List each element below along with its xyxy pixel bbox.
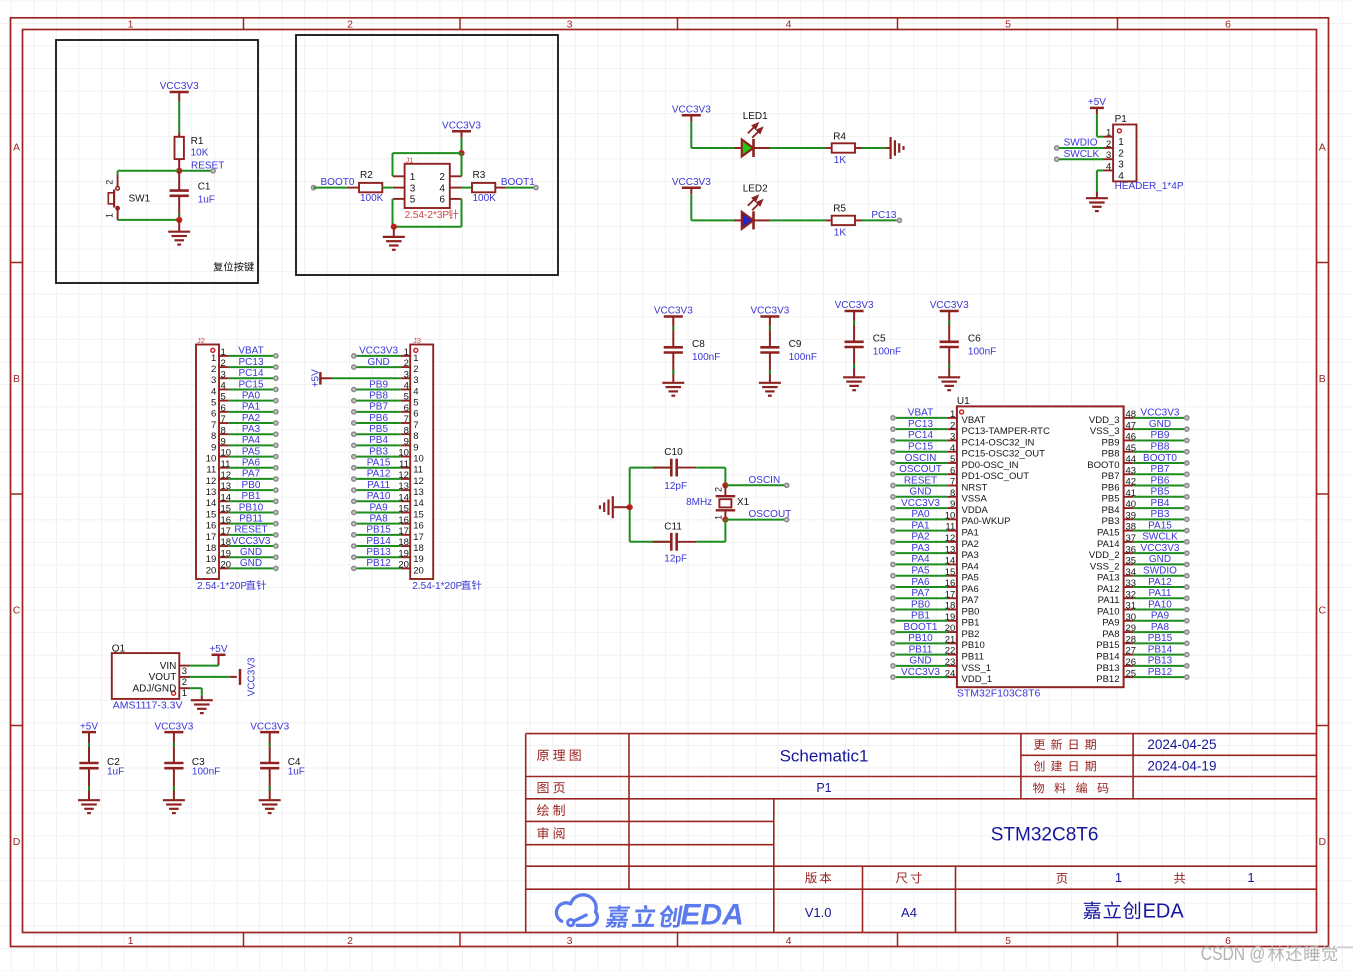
wire VCC3V3 to R1	[178, 99, 180, 102]
wire C6 to ground	[948, 347, 950, 377]
J3 pin 9 (PB4)	[401, 444, 411, 446]
svg-text:3: 3	[404, 369, 409, 380]
LED LED2	[735, 219, 743, 221]
svg-text:VCC3V3: VCC3V3	[901, 667, 940, 678]
svg-text:PB8: PB8	[1151, 442, 1170, 453]
svg-text:1: 1	[1118, 137, 1124, 148]
svg-text:VDD_1: VDD_1	[962, 674, 993, 685]
svg-text:VDD_2: VDD_2	[1089, 550, 1120, 561]
svg-text:5: 5	[221, 392, 226, 403]
svg-text:PC15-OSC32_OUT: PC15-OSC32_OUT	[962, 449, 1046, 460]
wire VCC3V3 to LED2	[690, 194, 692, 220]
U1 pin 2 (PC13-TAMPER-RTC)	[947, 428, 957, 430]
svg-text:STM32C8T6: STM32C8T6	[991, 825, 1099, 846]
svg-text:A: A	[1319, 142, 1326, 154]
svg-text:PA8: PA8	[1102, 629, 1119, 640]
svg-text:LED2: LED2	[743, 183, 768, 194]
svg-text:5: 5	[1005, 935, 1011, 947]
svg-text:VCC3V3: VCC3V3	[672, 177, 711, 188]
wire BOOT0 to R2	[314, 187, 348, 189]
svg-text:PC15: PC15	[238, 379, 263, 390]
wire C2 to ground	[88, 768, 90, 800]
svg-text:PA4: PA4	[911, 554, 930, 565]
U1 pin 18 (PB0)	[947, 609, 957, 611]
pushbutton SW1	[117, 175, 119, 186]
svg-text:D: D	[1319, 836, 1327, 848]
svg-text:1uF: 1uF	[107, 767, 124, 778]
svg-text:2: 2	[439, 172, 445, 183]
U1 pin 4 (PC15-OSC32_OUT)	[947, 451, 957, 453]
svg-text:PA1: PA1	[911, 520, 930, 531]
svg-text:11: 11	[206, 465, 216, 476]
svg-text:PB10: PB10	[239, 502, 264, 513]
svg-text:PB8: PB8	[369, 390, 388, 401]
wire LED2 to R5	[770, 219, 827, 221]
svg-text:PB0: PB0	[962, 606, 980, 617]
capacitor C6	[940, 340, 959, 343]
svg-text:4: 4	[439, 183, 445, 194]
frame row ticks	[11, 262, 23, 264]
svg-text:PB10: PB10	[962, 640, 985, 651]
svg-text:CSDN @: CSDN @	[1201, 943, 1266, 965]
power flag VCC3V3 (Q1, rotated)	[239, 669, 242, 685]
svg-text:PB4: PB4	[369, 435, 388, 446]
capacitor C1	[178, 171, 180, 191]
U1 pin 25 (PB12)	[1124, 676, 1134, 678]
svg-text:2.54-1*20P: 2.54-1*20P	[412, 581, 462, 592]
title field 尺寸	[896, 872, 922, 884]
svg-text:VCC3V3: VCC3V3	[750, 306, 789, 317]
ground (reset block)	[178, 220, 180, 232]
U1 pin 31 (PA10)	[1124, 609, 1134, 611]
svg-text:VCC3V3: VCC3V3	[1141, 408, 1180, 419]
svg-text:PA2: PA2	[242, 413, 261, 424]
wire +5V to P1 pin1	[1096, 114, 1098, 136]
svg-text:D: D	[13, 836, 21, 848]
svg-text:VCC3V3: VCC3V3	[246, 657, 257, 696]
svg-text:2: 2	[182, 677, 187, 688]
power flag +5V (J3 pin3, rotated)	[319, 372, 322, 385]
wire R3 to BOOT1	[505, 187, 534, 189]
wire VCC3V3 to C5	[853, 317, 855, 342]
J2 pin 3 (PC14)	[219, 377, 229, 379]
svg-text:100K: 100K	[360, 193, 384, 204]
net port SWDIO	[1055, 146, 1059, 150]
svg-text:3: 3	[1118, 160, 1124, 171]
svg-text:P1: P1	[816, 781, 831, 795]
svg-text:PA1: PA1	[242, 402, 261, 413]
resistor R3	[461, 187, 472, 189]
net port SWCLK	[1055, 157, 1059, 161]
crystal X1 8MHz	[724, 485, 726, 496]
svg-text:VCC3V3: VCC3V3	[672, 104, 711, 115]
svg-text:PB13: PB13	[1148, 656, 1173, 667]
J2 pin 20 (GND)	[219, 567, 229, 569]
svg-text:PB3: PB3	[369, 446, 388, 457]
power flag VCC3V3 (C3)	[164, 731, 183, 734]
svg-text:PA5: PA5	[911, 566, 930, 577]
U1 pin 28 (PB15)	[1124, 642, 1134, 644]
U1 pin 23 (VSS_1)	[947, 665, 957, 667]
svg-text:2024-04-19: 2024-04-19	[1147, 759, 1216, 774]
wire VCC3V3 to C3	[173, 738, 175, 763]
svg-text:PA11: PA11	[367, 480, 390, 491]
svg-text:100nF: 100nF	[789, 352, 817, 363]
U1 pin 12 (PA2)	[947, 541, 957, 543]
U1 pin 34 (PA13)	[1124, 575, 1134, 577]
wire VCC3V3 to C4	[269, 738, 271, 763]
svg-text:6: 6	[950, 465, 955, 476]
svg-text:VOUT: VOUT	[149, 672, 177, 683]
svg-text:6: 6	[211, 409, 216, 420]
svg-text:PB2: PB2	[962, 629, 980, 640]
node junction R1/C1/SW1	[176, 168, 182, 174]
svg-text:1uF: 1uF	[288, 767, 305, 778]
wire C9 to ground	[769, 353, 771, 383]
svg-text:8: 8	[950, 488, 955, 499]
net port OSCIN	[785, 483, 789, 487]
svg-text:3: 3	[413, 375, 418, 386]
svg-text:PB5: PB5	[369, 424, 388, 435]
svg-text:PB15: PB15	[1148, 633, 1173, 644]
svg-text:4: 4	[211, 386, 216, 397]
U1 pin 21 (PB10)	[947, 642, 957, 644]
block label 复位按键	[213, 262, 253, 272]
power flag VCC3V3 (LED1)	[682, 114, 701, 117]
svg-text:4: 4	[950, 443, 955, 454]
svg-text:PA3: PA3	[911, 543, 930, 554]
svg-text:PB12: PB12	[366, 558, 391, 569]
svg-text:2: 2	[950, 420, 955, 431]
svg-text:9: 9	[221, 436, 226, 447]
U1 pin 37 (PA14)	[1124, 541, 1134, 543]
U1 pin 47 (VSS_3)	[1124, 428, 1134, 430]
svg-text:BOOT0: BOOT0	[1087, 460, 1119, 471]
svg-text:VSS_2: VSS_2	[1090, 561, 1120, 572]
svg-text:PB4: PB4	[1151, 498, 1170, 509]
svg-text:19: 19	[206, 554, 217, 565]
svg-text:PB12: PB12	[1096, 674, 1119, 685]
power flag +5V (Q1)	[212, 654, 226, 657]
svg-text:PB9: PB9	[1102, 437, 1120, 448]
J3 pin 17 (PB15)	[401, 534, 411, 536]
svg-text:PB8: PB8	[1102, 449, 1120, 460]
svg-text:5: 5	[950, 454, 955, 465]
wire right loop down	[724, 520, 726, 542]
svg-text:PB3: PB3	[1151, 509, 1170, 520]
svg-text:R5: R5	[833, 204, 846, 215]
ground (C3)	[163, 799, 185, 801]
title field 原理图	[537, 750, 581, 761]
svg-text:PA5: PA5	[242, 446, 261, 457]
capacitor C2	[79, 762, 98, 765]
svg-text:7: 7	[413, 420, 418, 431]
wire VCC3V3 to LED1	[690, 122, 692, 148]
wire VCC3V3 to C8	[672, 323, 674, 348]
svg-text:+5V: +5V	[311, 369, 322, 387]
U1 pin 26 (PB13)	[1124, 665, 1134, 667]
svg-text:7: 7	[404, 414, 409, 425]
power flag VCC3V3 (C4)	[260, 731, 279, 734]
svg-text:LED1: LED1	[743, 111, 768, 122]
svg-text:PB7: PB7	[1151, 464, 1170, 475]
U1 pin 35 (VSS_2)	[1124, 563, 1134, 565]
power flag +5V (P1)	[1090, 107, 1104, 110]
svg-text:+5V: +5V	[1088, 97, 1106, 108]
svg-text:17: 17	[413, 532, 424, 543]
svg-text:J2: J2	[197, 336, 205, 345]
svg-text:STM32F103C8T6: STM32F103C8T6	[957, 687, 1041, 699]
U1 pin 1 (VBAT)	[947, 417, 957, 419]
svg-text:+5V: +5V	[80, 721, 98, 732]
svg-text:Schematic1: Schematic1	[780, 746, 869, 765]
J3 pin 4 (PB9)	[401, 388, 411, 390]
U1 pin 39 (PB3)	[1124, 518, 1134, 520]
svg-text:8: 8	[221, 425, 226, 436]
ground (C2)	[78, 799, 100, 801]
svg-text:1: 1	[404, 347, 409, 358]
svg-text:PA15: PA15	[1148, 520, 1172, 531]
svg-text:VCC3V3: VCC3V3	[154, 721, 193, 732]
power flag VCC3V3 (LED2)	[682, 186, 701, 189]
J2 pin 9 (PA4)	[219, 444, 229, 446]
U1 pin 3 (PC14-OSC32_IN)	[947, 439, 957, 441]
svg-text:VBAT: VBAT	[962, 415, 986, 426]
svg-text:PB6: PB6	[369, 413, 388, 424]
power flag VCC3V3 (C9)	[760, 315, 779, 318]
svg-text:VSS_1: VSS_1	[962, 663, 992, 674]
U1 pin 15 (PA5)	[947, 575, 957, 577]
svg-text:PA0-WKUP: PA0-WKUP	[962, 516, 1011, 527]
svg-text:5: 5	[413, 398, 418, 409]
J3 pin 1 (VCC3V3)	[401, 355, 411, 357]
svg-text:C5: C5	[873, 333, 886, 344]
svg-text:VCC3V3: VCC3V3	[835, 300, 874, 311]
J2 pin 15 (PB10)	[219, 511, 229, 513]
svg-text:PA0: PA0	[911, 509, 930, 520]
svg-text:C1: C1	[198, 181, 211, 192]
svg-text:3: 3	[221, 369, 226, 380]
svg-text:PB12: PB12	[1148, 667, 1173, 678]
svg-text:1: 1	[128, 18, 134, 30]
svg-text:VCC3V3: VCC3V3	[232, 536, 271, 547]
svg-text:A: A	[13, 142, 20, 154]
svg-text:OSCOUT: OSCOUT	[899, 464, 942, 475]
resistor R2	[348, 187, 360, 189]
svg-text:VCC3V3: VCC3V3	[160, 81, 199, 92]
svg-text:R3: R3	[473, 170, 486, 181]
svg-text:PB7: PB7	[369, 402, 388, 413]
resistor R4	[826, 147, 832, 149]
svg-text:12: 12	[413, 476, 424, 487]
svg-text:PA7: PA7	[242, 469, 261, 480]
wire +5V to C2	[88, 738, 90, 763]
svg-text:PD1-OSC_OUT: PD1-OSC_OUT	[962, 471, 1030, 482]
resistor R5	[826, 219, 832, 221]
title field 图页	[538, 782, 565, 793]
svg-text:12pF: 12pF	[664, 554, 687, 565]
title field 更新日期	[1034, 739, 1096, 750]
svg-text:PA3: PA3	[962, 550, 979, 561]
svg-text:PA15: PA15	[367, 458, 391, 469]
svg-text:EDA: EDA	[681, 898, 744, 931]
svg-text:4: 4	[413, 386, 418, 397]
svg-text:14: 14	[206, 498, 217, 509]
block frame: reset button	[56, 40, 258, 283]
wire SWCLK to P1 pin3	[1057, 158, 1104, 160]
svg-text:3: 3	[567, 935, 573, 947]
J3 pin 8 (PB5)	[401, 433, 411, 435]
svg-text:7: 7	[221, 414, 226, 425]
U1 pin 10 (PA0-WKUP)	[947, 518, 957, 520]
node junction OSCIN	[722, 482, 728, 488]
svg-text:2: 2	[413, 364, 418, 375]
wire C4 to ground	[269, 768, 271, 800]
svg-text:1: 1	[413, 353, 418, 364]
U1 pin 19 (PB1)	[947, 620, 957, 622]
svg-text:PB13: PB13	[366, 547, 391, 558]
svg-text:RESET: RESET	[234, 525, 267, 536]
svg-text:GND: GND	[240, 547, 262, 558]
ground (C6)	[938, 376, 960, 378]
svg-text:SWDIO: SWDIO	[1143, 566, 1177, 577]
ground (C4)	[259, 799, 281, 801]
U1 pin 5 (PD0-OSC_IN)	[947, 462, 957, 464]
svg-text:OSCIN: OSCIN	[905, 453, 937, 464]
svg-text:PA12: PA12	[1097, 584, 1120, 595]
svg-text:17: 17	[206, 532, 217, 543]
svg-text:2.54-1*20P: 2.54-1*20P	[197, 581, 247, 592]
svg-text:PA6: PA6	[242, 458, 261, 469]
svg-text:2: 2	[347, 18, 353, 30]
svg-text:RESET: RESET	[904, 475, 937, 486]
svg-text:10: 10	[206, 453, 217, 464]
J3 pin 16 (PA8)	[401, 523, 411, 525]
svg-text:PB5: PB5	[1102, 494, 1120, 505]
logo JLCEDA cloud icon	[556, 895, 597, 926]
svg-text:18: 18	[206, 543, 217, 554]
svg-text:3: 3	[211, 375, 216, 386]
J3 pin 7 (PB6)	[401, 422, 411, 424]
capacitor C5	[845, 340, 864, 343]
capacitor C8	[664, 346, 683, 349]
J2 pin 18 (VCC3V3)	[219, 545, 229, 547]
wire OSCIN port	[725, 484, 784, 486]
capacitor C11	[630, 541, 672, 543]
ground (P1)	[1096, 192, 1098, 198]
svg-text:1: 1	[128, 935, 134, 947]
svg-text:8: 8	[404, 425, 409, 436]
net port BOOT0	[311, 186, 315, 190]
svg-text:14: 14	[413, 498, 424, 509]
svg-text:VSSA: VSSA	[962, 494, 988, 505]
title field 页	[1056, 873, 1067, 884]
svg-text:VCC3V3: VCC3V3	[930, 300, 969, 311]
wire SWDIO to P1 pin2	[1057, 147, 1104, 149]
power flag VCC3V3 (C8)	[664, 315, 683, 318]
ground (Q1)	[201, 696, 203, 700]
title field 共	[1174, 872, 1185, 883]
J3 pin 19 (PB13)	[401, 556, 411, 558]
svg-text:PC14: PC14	[908, 430, 933, 441]
svg-text:3: 3	[1106, 150, 1111, 161]
svg-text:12: 12	[206, 476, 217, 487]
svg-text:20: 20	[413, 565, 424, 576]
svg-text:PB14: PB14	[1096, 652, 1119, 663]
svg-text:4: 4	[786, 935, 792, 947]
svg-text:6: 6	[413, 409, 418, 420]
svg-text:PC13: PC13	[908, 419, 933, 430]
svg-text:PA12: PA12	[367, 469, 391, 480]
svg-text:19: 19	[413, 554, 424, 565]
J2 pin 11 (PA6)	[219, 467, 229, 469]
svg-text:PB15: PB15	[1096, 640, 1119, 651]
svg-text:PB0: PB0	[242, 480, 261, 491]
svg-text:16: 16	[413, 521, 424, 532]
J3 pin 10 (PB3)	[401, 456, 411, 458]
capacitor C10	[630, 467, 672, 469]
wire Q1 ADJ/GND to ground	[179, 687, 190, 689]
svg-text:PB7: PB7	[1102, 471, 1120, 482]
title block table	[526, 734, 1317, 933]
U1 pin 33 (PA12)	[1124, 586, 1134, 588]
U1 pin 41 (PB5)	[1124, 496, 1134, 498]
svg-text:PB1: PB1	[242, 491, 261, 502]
svg-text:BOOT0: BOOT0	[1143, 453, 1177, 464]
svg-text:1: 1	[221, 347, 226, 358]
svg-text:PB0: PB0	[911, 599, 930, 610]
svg-text:5: 5	[410, 195, 416, 206]
U1 pin 38 (PA15)	[1124, 530, 1134, 532]
title value 嘉立创EDA (right cell)	[1083, 901, 1140, 919]
node junction crystal ground	[627, 504, 633, 510]
svg-text:10K: 10K	[191, 148, 209, 159]
ground (boot block)	[393, 227, 395, 237]
node junction C1/SW1/ground	[176, 217, 182, 223]
svg-text:BOOT1: BOOT1	[501, 177, 535, 188]
svg-text:15: 15	[206, 509, 217, 520]
svg-text:4: 4	[1118, 171, 1124, 182]
J3 pin 13 (PA11)	[401, 489, 411, 491]
J2 pin 13 (PB0)	[219, 489, 229, 491]
svg-text:PC15: PC15	[908, 442, 933, 453]
svg-text:AMS1117-3.3V: AMS1117-3.3V	[113, 700, 183, 712]
svg-text:9: 9	[950, 499, 955, 510]
J3 pin 11 (PA15)	[401, 467, 411, 469]
J2 pin 2 (PC13)	[219, 366, 229, 368]
svg-text:A4: A4	[901, 905, 917, 920]
svg-text:1: 1	[714, 515, 724, 520]
svg-text:VCC3V3: VCC3V3	[1141, 543, 1180, 554]
svg-text:C: C	[13, 605, 21, 617]
power flag +5V (C2)	[82, 731, 96, 734]
U1 pin 44 (BOOT0)	[1124, 462, 1134, 464]
svg-text:PA14: PA14	[1097, 539, 1120, 550]
svg-text:R4: R4	[833, 131, 846, 142]
U1 pin 48 (VDD_3)	[1124, 417, 1134, 419]
svg-text:C9: C9	[789, 339, 802, 350]
svg-text:NRST: NRST	[962, 482, 988, 493]
J3 pin 6 (PB7)	[401, 411, 411, 413]
svg-text:PA7: PA7	[911, 588, 930, 599]
svg-text:PB4: PB4	[1102, 505, 1120, 516]
svg-text:10: 10	[413, 453, 424, 464]
svg-text:X1: X1	[737, 497, 750, 508]
svg-text:C10: C10	[664, 447, 683, 458]
svg-text:PA10: PA10	[1097, 606, 1120, 617]
node junction ground (boot)	[391, 224, 397, 230]
svg-text:BOOT1: BOOT1	[904, 622, 938, 633]
